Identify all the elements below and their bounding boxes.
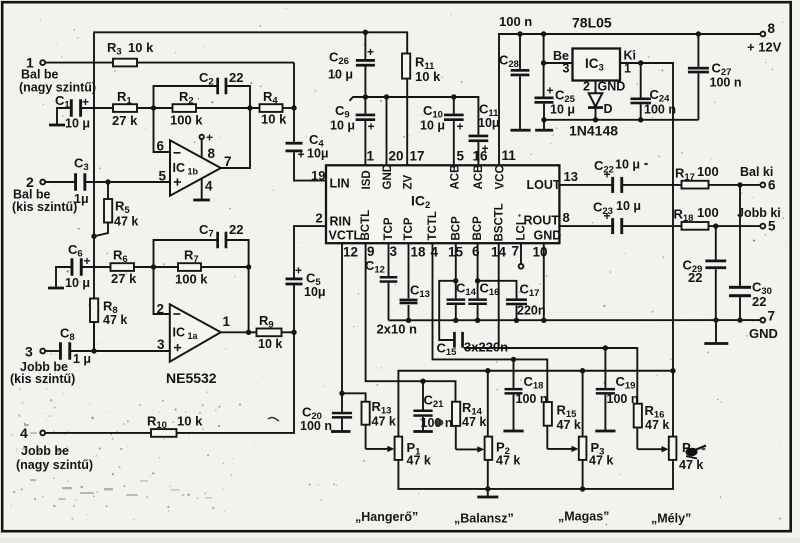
svg-text:ROUT: ROUT: [524, 214, 560, 228]
svg-text:+: +: [295, 264, 302, 278]
svg-text:10 k: 10 k: [177, 414, 203, 429]
svg-text:+: +: [547, 84, 554, 98]
svg-text:RIN: RIN: [330, 215, 352, 229]
svg-text:LCI: LCI: [516, 222, 528, 241]
svg-text:TCTL: TCTL: [427, 211, 439, 240]
svg-text:TCP: TCP: [383, 217, 395, 240]
svg-text:47 k: 47 k: [589, 454, 613, 468]
svg-text:47 k: 47 k: [407, 454, 431, 468]
svg-text:10 μ ·: 10 μ ·: [615, 158, 648, 172]
svg-text:10μ: 10μ: [478, 116, 500, 130]
svg-text:12: 12: [343, 245, 358, 260]
svg-text:8: 8: [768, 21, 776, 36]
svg-text:10μ: 10μ: [307, 147, 329, 161]
svg-text:20: 20: [389, 149, 404, 164]
svg-text:4: 4: [431, 245, 439, 260]
svg-text:5: 5: [457, 149, 465, 164]
svg-text:13: 13: [564, 169, 578, 184]
svg-text:17: 17: [410, 149, 425, 164]
svg-text:10 μ: 10 μ: [65, 276, 90, 290]
svg-text:100 n: 100 n: [499, 14, 532, 29]
svg-text:2: 2: [316, 211, 323, 226]
svg-text:NE5532: NE5532: [166, 370, 217, 386]
svg-text:100: 100: [697, 205, 719, 220]
svg-text:1N4148: 1N4148: [569, 123, 618, 139]
svg-text:+: +: [298, 148, 305, 162]
svg-text:47 k: 47 k: [462, 415, 486, 429]
svg-text:100 n: 100 n: [710, 76, 742, 90]
svg-text:„Magas”: „Magas”: [558, 510, 609, 524]
svg-text:5: 5: [159, 169, 167, 184]
svg-text:GND: GND: [382, 164, 394, 190]
svg-text:6: 6: [768, 178, 776, 193]
svg-text:7: 7: [768, 309, 776, 324]
svg-text:78L05: 78L05: [572, 15, 612, 31]
svg-text:7: 7: [224, 154, 232, 169]
svg-text:+: +: [84, 254, 91, 268]
svg-text:1μ: 1μ: [74, 192, 89, 206]
svg-text:10 k: 10 k: [261, 112, 287, 127]
svg-text:10 μ: 10 μ: [328, 68, 353, 82]
svg-text:+: +: [368, 120, 375, 134]
svg-text:ZV: ZV: [403, 174, 415, 189]
svg-text:VCTL: VCTL: [329, 229, 362, 243]
svg-text:BCP: BCP: [472, 216, 484, 241]
svg-text:2x10 n: 2x10 n: [377, 322, 418, 337]
svg-text:LIN: LIN: [330, 177, 350, 191]
svg-text:47 k: 47 k: [645, 418, 669, 432]
svg-text:„Mély”: „Mély”: [651, 512, 691, 526]
svg-text:„Balansz”: „Balansz”: [454, 512, 514, 526]
svg-text:+: +: [82, 95, 89, 109]
svg-text:47 k: 47 k: [496, 454, 520, 468]
svg-text:22: 22: [229, 70, 243, 85]
svg-text:ISD: ISD: [361, 170, 373, 189]
svg-text:7: 7: [512, 244, 520, 259]
svg-text:5: 5: [768, 219, 776, 234]
svg-text:100 k: 100 k: [170, 113, 203, 128]
svg-text:27 k: 27 k: [111, 271, 137, 286]
svg-text:22: 22: [688, 270, 702, 285]
svg-text:47 k: 47 k: [372, 415, 396, 429]
svg-text:8: 8: [563, 210, 570, 225]
svg-text:6: 6: [157, 139, 165, 154]
svg-text:+: +: [457, 120, 464, 134]
svg-text:19: 19: [311, 168, 325, 183]
svg-text:1: 1: [223, 314, 231, 329]
svg-text:(kis szintű): (kis szintű): [12, 200, 77, 214]
svg-text:3: 3: [25, 344, 33, 360]
svg-text:ACB: ACB: [449, 165, 461, 190]
svg-text:+: +: [367, 45, 374, 59]
svg-text:+: +: [206, 131, 213, 145]
svg-text:VCC: VCC: [495, 165, 507, 189]
svg-text:100 n: 100 n: [607, 392, 639, 406]
svg-text:LOUT: LOUT: [527, 178, 561, 192]
svg-text:+: +: [604, 209, 611, 223]
svg-text:Bal be: Bal be: [21, 68, 59, 82]
svg-text:1: 1: [367, 149, 375, 164]
svg-text:16: 16: [473, 149, 489, 164]
svg-text:10 μ: 10 μ: [420, 119, 445, 133]
svg-text:GND: GND: [598, 80, 626, 94]
svg-text:Jobb be: Jobb be: [21, 444, 69, 458]
svg-text:+ 12V: + 12V: [747, 40, 782, 55]
svg-text:47 k: 47 k: [557, 418, 581, 432]
svg-text:47 k: 47 k: [103, 313, 127, 327]
svg-text:4: 4: [20, 425, 28, 441]
svg-text:10: 10: [533, 245, 548, 260]
svg-text:ACB: ACB: [473, 165, 485, 190]
svg-text:1: 1: [624, 62, 631, 76]
svg-text:6: 6: [472, 244, 480, 259]
svg-text:BCP: BCP: [450, 216, 462, 241]
svg-text:„Hangerő”: „Hangerő”: [355, 510, 418, 524]
svg-text:Ki: Ki: [624, 49, 637, 63]
svg-text:22: 22: [229, 222, 243, 237]
svg-text:(nagy szintű): (nagy szintű): [16, 458, 93, 472]
svg-text:4: 4: [205, 179, 213, 194]
svg-text:15: 15: [448, 245, 464, 260]
svg-text:10 k: 10 k: [128, 40, 154, 55]
svg-text:100 n: 100 n: [644, 103, 676, 117]
svg-text:3: 3: [563, 62, 570, 76]
svg-text:TCP: TCP: [403, 217, 415, 240]
svg-text:10 k: 10 k: [415, 69, 441, 84]
svg-text:10μ: 10μ: [304, 285, 326, 299]
svg-text:(kis szintű): (kis szintű): [10, 372, 75, 386]
svg-text:10 k: 10 k: [258, 337, 282, 351]
svg-text:2: 2: [157, 302, 165, 317]
svg-text:GND: GND: [749, 326, 778, 341]
svg-text:100 n: 100 n: [300, 419, 332, 433]
svg-text:22: 22: [752, 294, 766, 309]
svg-text:1 μ: 1 μ: [73, 352, 91, 366]
svg-text:GND: GND: [534, 229, 562, 243]
svg-text:47 k: 47 k: [114, 215, 138, 229]
svg-text:14: 14: [491, 245, 507, 260]
svg-text:100 n: 100 n: [516, 392, 548, 406]
svg-text:3: 3: [157, 337, 165, 352]
svg-text:47 k: 47 k: [679, 458, 703, 472]
svg-text:10 μ: 10 μ: [330, 119, 355, 133]
svg-text:100 k: 100 k: [175, 272, 208, 287]
svg-text:D: D: [604, 102, 613, 116]
svg-text:9: 9: [367, 244, 375, 259]
svg-text:220n: 220n: [517, 304, 546, 318]
svg-text:10 μ: 10 μ: [616, 199, 641, 213]
svg-text:100: 100: [697, 164, 719, 179]
svg-text:27 k: 27 k: [112, 113, 138, 128]
svg-text:11: 11: [502, 148, 517, 163]
svg-text:10 μ: 10 μ: [65, 117, 90, 131]
svg-text:3: 3: [390, 244, 398, 259]
svg-text:BCTL: BCTL: [360, 210, 372, 241]
svg-text:BSCTL: BSCTL: [493, 203, 505, 241]
svg-text:10 μ: 10 μ: [550, 103, 575, 117]
svg-text:+: +: [604, 168, 611, 182]
svg-text:3x220n: 3x220n: [464, 340, 508, 355]
svg-text:2: 2: [583, 80, 590, 94]
svg-text:8: 8: [208, 146, 216, 161]
svg-text:18: 18: [411, 245, 427, 260]
